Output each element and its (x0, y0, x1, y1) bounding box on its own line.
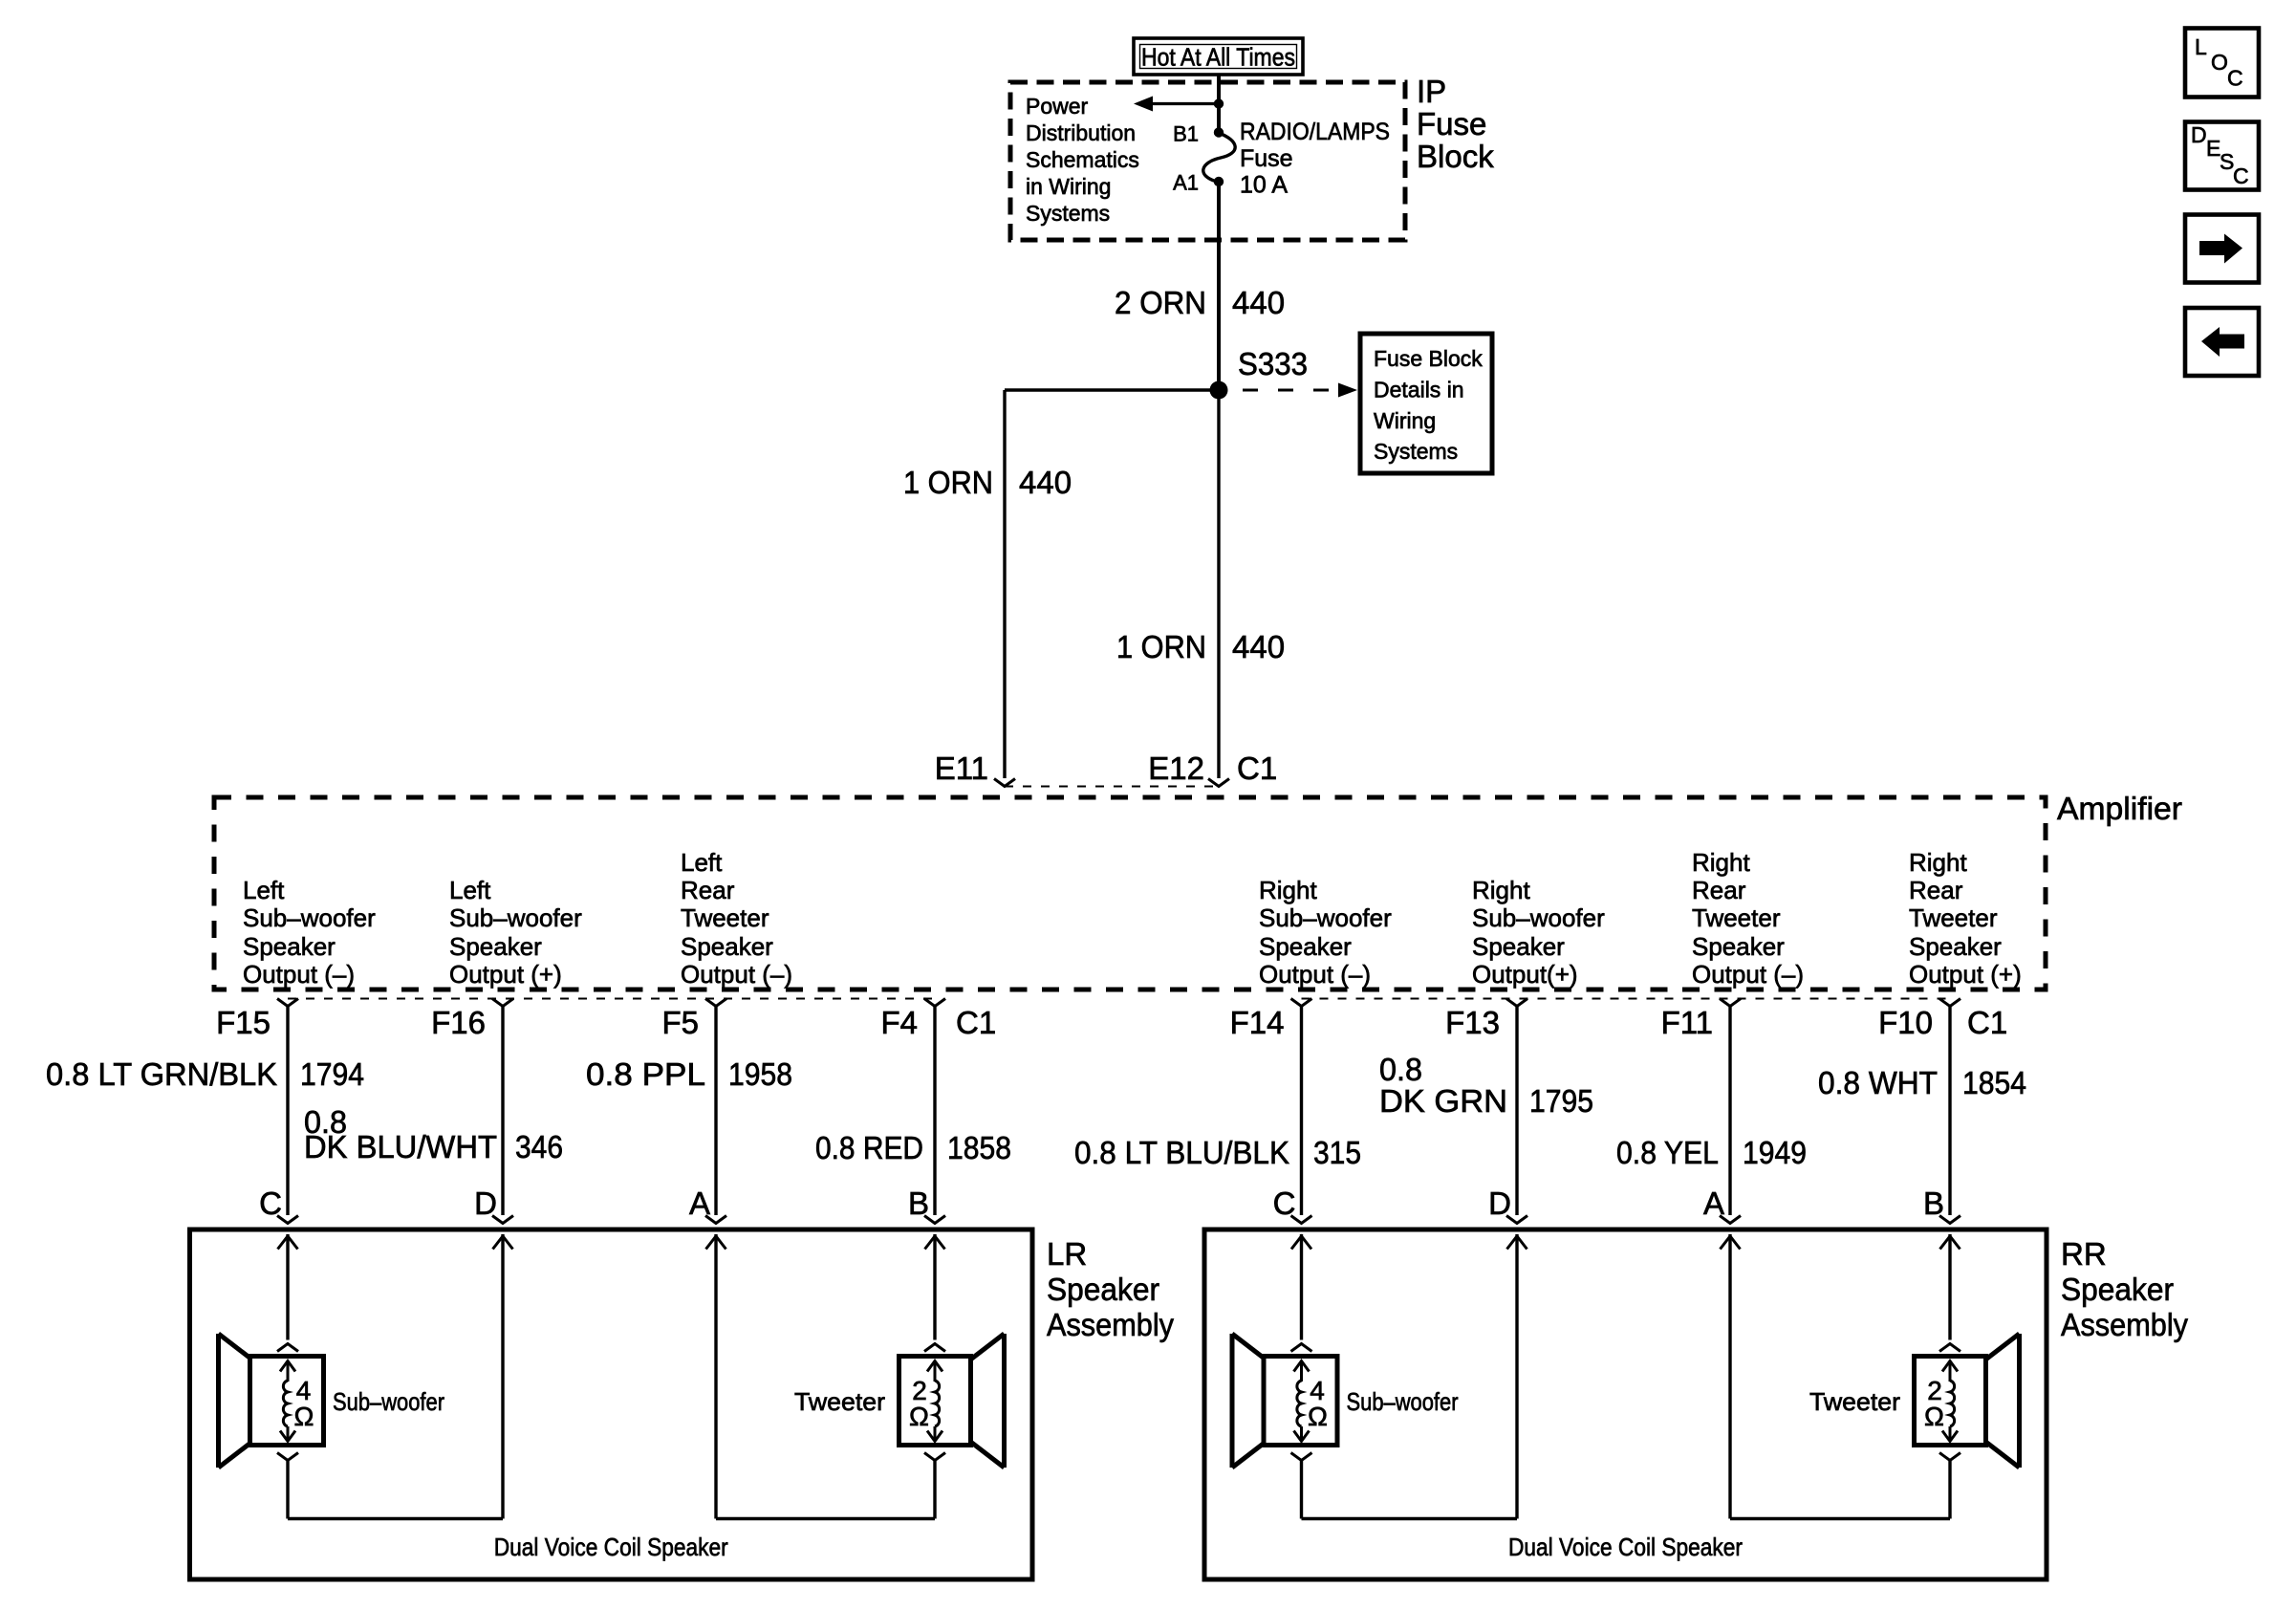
svg-text:Ω: Ω (909, 1402, 929, 1431)
RR tweeter voice coil 2 ohm (1915, 1357, 1986, 1446)
svg-text:Sub–woofer: Sub–woofer (243, 903, 376, 932)
arrowhead into RR box (1940, 1236, 1960, 1250)
terminal F15 (216, 999, 298, 1041)
svg-text:0.8 PPL: 0.8 PPL (586, 1056, 705, 1092)
terminal C of RR assembly (1273, 1186, 1312, 1224)
wire from LR tweeter to terminal A (716, 1234, 935, 1519)
svg-text:F13: F13 (1445, 1005, 1500, 1040)
power feed box Hot At All Times (1134, 38, 1303, 75)
svg-text:F15: F15 (216, 1005, 271, 1040)
svg-text:C1: C1 (956, 1005, 996, 1040)
svg-text:346: 346 (515, 1129, 563, 1164)
svg-text:Output (–): Output (–) (1259, 960, 1371, 989)
wire to LR tweeter coil (933, 1234, 936, 1340)
svg-text:F10: F10 (1878, 1005, 1933, 1040)
wire to LR sub-woofer coil (286, 1234, 289, 1340)
wire label 0.8 RED | 1858 (815, 1130, 1011, 1165)
terminal B of RR assembly (1923, 1186, 1960, 1224)
svg-text:Tweeter: Tweeter (681, 903, 769, 932)
svg-text:LR: LR (1047, 1236, 1087, 1272)
svg-text:Left: Left (681, 848, 723, 877)
arrowhead into RR box (1507, 1236, 1527, 1250)
RR dual voice coil note (1508, 1533, 1743, 1561)
wire 0.8 WHT 1854 (right rear tweeter +) (1948, 1006, 1951, 1216)
svg-text:Right: Right (1472, 876, 1530, 904)
terminal A of RR assembly (1703, 1186, 1741, 1224)
svg-text:Fuse: Fuse (1417, 106, 1486, 141)
svg-text:440: 440 (1232, 285, 1285, 320)
svg-text:Output (+): Output (+) (1909, 960, 2022, 989)
LR tweeter chevron below coil (924, 1453, 945, 1461)
svg-text:Ω: Ω (1924, 1402, 1944, 1431)
wire from Hot At All Times to fuse terminal B1 (1217, 75, 1221, 133)
svg-text:440: 440 (1232, 629, 1285, 664)
svg-text:1958: 1958 (728, 1056, 792, 1092)
svg-text:Speaker: Speaker (2061, 1272, 2174, 1307)
svg-text:Tweeter: Tweeter (1692, 903, 1781, 932)
terminal F5 (661, 999, 726, 1041)
wire 0.8 LT GRN/BLK 1794 (left sub-woofer -) (286, 1006, 289, 1216)
svg-text:IP: IP (1417, 74, 1446, 109)
nav icon back arrow (2185, 308, 2259, 376)
RR sub-woofer voice coil 4 ohm (1264, 1357, 1337, 1446)
svg-text:1 ORN: 1 ORN (1116, 629, 1206, 664)
RR sub-woofer label (1347, 1387, 1459, 1416)
svg-text:Fuse: Fuse (1240, 145, 1293, 172)
terminal D of LR assembly (474, 1186, 513, 1224)
terminal F13 (1445, 999, 1527, 1041)
wire label 0.8 WHT | 1854 (1818, 1065, 2026, 1100)
RR sub-woofer chevron above coil (1291, 1344, 1312, 1352)
wire 1 ORN 440 to E11 (903, 390, 1072, 778)
wire to RR tweeter coil (1948, 1234, 1951, 1340)
connector name C1 (top) (1237, 751, 1277, 786)
arrowhead into LR box (706, 1236, 726, 1250)
svg-text:0.8 RED: 0.8 RED (815, 1130, 923, 1165)
svg-text:Speaker: Speaker (243, 932, 336, 961)
wire 2 ORN 440 (1115, 182, 1285, 390)
svg-text:Ω: Ω (294, 1402, 314, 1431)
dashed reference arrow to fuse block details (1243, 383, 1357, 398)
amplifier dashed box (214, 797, 2046, 990)
note box Fuse Block Details in Wiring Systems (1360, 334, 1492, 473)
svg-text:L: L (2195, 34, 2207, 59)
component name RR Speaker Assembly (2061, 1236, 2188, 1342)
pin label Right Sub-woofer Speaker Output(+) (1472, 876, 1605, 989)
connector C1 boundary (amplifier top) (1005, 786, 1219, 788)
LR tweeter chevron above coil (924, 1344, 945, 1352)
terminal F14 (1230, 999, 1312, 1041)
connector C1 boundary (amplifier bottom right) (1302, 998, 1951, 1000)
terminal C of LR assembly (259, 1186, 298, 1224)
terminal B of LR assembly (908, 1186, 945, 1224)
svg-text:DK BLU/WHT: DK BLU/WHT (304, 1129, 497, 1164)
splice S333 (1210, 346, 1309, 400)
wire 0.8 YEL 1949 (right rear tweeter -) (1728, 1006, 1731, 1216)
nav icon LOC (2185, 29, 2259, 98)
svg-text:0.8 LT BLU/BLK: 0.8 LT BLU/BLK (1074, 1135, 1289, 1170)
svg-text:Output (+): Output (+) (449, 960, 562, 989)
svg-text:Distribution: Distribution (1026, 120, 1136, 145)
svg-text:C: C (2233, 163, 2249, 188)
LR sub-woofer speaker horn (219, 1334, 252, 1468)
svg-text:Output (–): Output (–) (681, 960, 792, 989)
connector C1 boundary (amplifier bottom left) (288, 998, 935, 1000)
arrowhead into LR box (493, 1236, 513, 1250)
svg-text:Right: Right (1259, 876, 1317, 904)
svg-text:1854: 1854 (1962, 1065, 2026, 1100)
pin label Left Sub-woofer Speaker Output (+) (449, 876, 582, 989)
svg-text:F16: F16 (431, 1005, 486, 1040)
terminal B1 (1173, 122, 1224, 146)
svg-text:Dual Voice Coil Speaker: Dual Voice Coil Speaker (494, 1533, 728, 1561)
svg-text:E12: E12 (1148, 751, 1204, 786)
svg-text:Speaker: Speaker (1047, 1272, 1159, 1307)
wire branch at S333 (1005, 388, 1219, 391)
svg-text:Speaker: Speaker (449, 932, 542, 961)
svg-text:S333: S333 (1238, 346, 1308, 381)
terminal F10 (1878, 999, 1960, 1041)
wire 0.8 DK GRN 1795 (right sub-woofer +) (1515, 1006, 1518, 1216)
LR tweeter label (794, 1387, 885, 1416)
svg-text:Systems: Systems (1026, 201, 1110, 226)
arrowhead into LR box (278, 1236, 298, 1250)
arrowhead into RR box (1721, 1236, 1741, 1250)
svg-text:Rear: Rear (1909, 876, 1963, 904)
nav icon forward arrow (2185, 215, 2259, 283)
svg-text:Assembly: Assembly (2061, 1307, 2188, 1342)
svg-text:RR: RR (2061, 1236, 2107, 1272)
pin label Right Rear Tweeter Speaker Output (-) (1692, 848, 1804, 989)
wire 0.8 RED 1858 (left rear tweeter +) (933, 1006, 936, 1216)
pin label Left Sub-woofer Speaker Output (-) (243, 876, 376, 989)
wire label 0.8 PPL | 1958 (586, 1056, 792, 1092)
svg-text:Tweeter: Tweeter (794, 1387, 885, 1416)
svg-text:Left: Left (243, 876, 285, 904)
wire 0.8 DK BLU/WHT 346 (left sub-woofer +) (501, 1006, 504, 1216)
LR tweeter speaker horn (971, 1334, 1005, 1468)
svg-text:Speaker: Speaker (1472, 932, 1565, 961)
svg-text:F14: F14 (1230, 1005, 1285, 1040)
svg-text:Sub–woofer: Sub–woofer (1472, 903, 1605, 932)
svg-text:Speaker: Speaker (1259, 932, 1352, 961)
LR tweeter voice coil 2 ohm (899, 1357, 971, 1446)
svg-text:1858: 1858 (947, 1130, 1011, 1165)
svg-text:Systems: Systems (1374, 439, 1458, 464)
svg-text:1949: 1949 (1743, 1135, 1807, 1170)
svg-text:A1: A1 (1173, 171, 1199, 195)
RR sub-woofer chevron below coil (1291, 1453, 1312, 1461)
svg-text:0.8 WHT: 0.8 WHT (1818, 1065, 1938, 1100)
svg-text:Details in: Details in (1374, 378, 1464, 402)
terminal A of LR assembly (689, 1186, 726, 1224)
svg-text:0.8: 0.8 (1379, 1052, 1422, 1087)
svg-text:Left: Left (449, 876, 491, 904)
terminal E12 (1148, 751, 1229, 787)
wire 1 ORN 440 to E12 (1116, 390, 1285, 778)
svg-text:Speaker: Speaker (1909, 932, 2002, 961)
RR tweeter speaker horn (1986, 1334, 2020, 1468)
svg-text:Output (–): Output (–) (1692, 960, 1804, 989)
svg-text:Tweeter: Tweeter (1909, 903, 1998, 932)
svg-text:Speaker: Speaker (1692, 932, 1785, 961)
svg-text:1 ORN: 1 ORN (903, 465, 993, 500)
svg-text:DK GRN: DK GRN (1379, 1083, 1507, 1119)
terminal D of RR assembly (1488, 1186, 1527, 1224)
RR speaker assembly box (1204, 1229, 2047, 1579)
svg-text:Amplifier: Amplifier (2057, 791, 2182, 826)
svg-text:Block: Block (1417, 139, 1494, 174)
svg-text:Sub–woofer: Sub–woofer (449, 903, 582, 932)
svg-text:D: D (2191, 122, 2207, 147)
terminal F11 (1661, 999, 1741, 1041)
LR speaker assembly box (190, 1229, 1033, 1579)
wire 0.8 LT BLU/BLK 315 (right sub-woofer -) (1300, 1006, 1303, 1216)
wire label 0.8 LT BLU/BLK | 315 (1074, 1135, 1361, 1170)
wire from RR sub-woofer to terminal D (1302, 1234, 1518, 1519)
wire label 0.8 LT GRN/BLK | 1794 (46, 1056, 364, 1092)
svg-text:0.8 LT GRN/BLK: 0.8 LT GRN/BLK (46, 1056, 277, 1092)
LR sub-woofer chevron above coil (277, 1344, 298, 1352)
terminal E11 (935, 751, 1015, 787)
svg-text:Sub–woofer: Sub–woofer (333, 1387, 444, 1416)
svg-text:10 A: 10 A (1240, 172, 1288, 199)
svg-text:Power: Power (1026, 94, 1089, 119)
wire label 0.8 DK GRN | 1795 (1379, 1052, 1593, 1119)
svg-text:F11: F11 (1661, 1005, 1713, 1040)
svg-text:Rear: Rear (1692, 876, 1746, 904)
component name LR Speaker Assembly (1047, 1236, 1174, 1342)
svg-text:Sub–woofer: Sub–woofer (1347, 1387, 1459, 1416)
terminal A1 (1173, 171, 1224, 195)
component name IP Fuse Block (1417, 74, 1494, 174)
RR tweeter label (1809, 1387, 1900, 1416)
arrowhead into RR box (1291, 1236, 1311, 1250)
pin label Right Sub-woofer Speaker Output (-) (1259, 876, 1392, 989)
svg-text:Hot At All Times: Hot At All Times (1141, 43, 1295, 72)
LR sub-woofer voice coil 4 ohm (250, 1357, 324, 1446)
arrow to power distribution schematics (1134, 97, 1219, 112)
svg-text:C1: C1 (1237, 751, 1277, 786)
svg-text:B1: B1 (1173, 122, 1199, 146)
svg-text:Output (–): Output (–) (243, 960, 355, 989)
svg-text:440: 440 (1019, 465, 1072, 500)
connector name C1 (bottom right) (1967, 1005, 2007, 1040)
wire to RR sub-woofer coil (1300, 1234, 1303, 1340)
wire label 0.8 DK BLU/WHT | 346 (304, 1104, 563, 1164)
svg-text:O: O (2211, 50, 2228, 75)
svg-text:RADIO/LAMPS: RADIO/LAMPS (1240, 119, 1390, 145)
svg-text:Ω: Ω (1308, 1402, 1328, 1431)
pin label Right Rear Tweeter Speaker Output (+) (1909, 848, 2022, 989)
svg-text:315: 315 (1313, 1135, 1361, 1170)
wire from RR tweeter to terminal A (1730, 1234, 1950, 1519)
svg-text:in Wiring: in Wiring (1026, 174, 1111, 199)
svg-text:Rear: Rear (681, 876, 735, 904)
component name Amplifier (2057, 791, 2182, 826)
wire 0.8 PPL 1958 (left rear tweeter -) (714, 1006, 717, 1216)
IP Fuse Block dashed box (1010, 82, 1405, 240)
svg-text:2 ORN: 2 ORN (1115, 285, 1206, 320)
svg-text:1794: 1794 (300, 1056, 364, 1092)
arrowhead into LR box (925, 1236, 945, 1250)
terminal F4 (880, 999, 945, 1041)
terminal F16 (431, 999, 513, 1041)
RR sub-woofer speaker horn (1232, 1334, 1266, 1468)
junction at arrow branch (1214, 98, 1224, 108)
svg-text:F4: F4 (880, 1005, 918, 1040)
fuse RADIO/LAMPS 10 A (1203, 119, 1390, 199)
svg-text:1795: 1795 (1529, 1083, 1593, 1119)
connector name C1 (bottom left) (956, 1005, 996, 1040)
svg-text:Sub–woofer: Sub–woofer (1259, 903, 1392, 932)
note Power Distribution Schematics in Wiring Systems (1026, 94, 1139, 226)
svg-text:C: C (2227, 66, 2243, 91)
wire label 0.8 YEL | 1949 (1616, 1135, 1807, 1170)
svg-text:0.8 YEL: 0.8 YEL (1616, 1135, 1719, 1170)
RR tweeter chevron above coil (1939, 1344, 1960, 1352)
svg-text:Assembly: Assembly (1047, 1307, 1174, 1342)
svg-text:Right: Right (1692, 848, 1750, 877)
svg-text:Wiring: Wiring (1374, 408, 1436, 433)
LR sub-woofer chevron below coil (277, 1453, 298, 1461)
svg-text:Dual Voice Coil Speaker: Dual Voice Coil Speaker (1508, 1533, 1743, 1561)
svg-text:Right: Right (1909, 848, 1967, 877)
svg-text:Output(+): Output(+) (1472, 960, 1578, 989)
svg-text:E11: E11 (935, 751, 988, 786)
svg-text:Fuse Block: Fuse Block (1374, 346, 1483, 371)
pin label Left Rear Tweeter Speaker Output (-) (681, 848, 792, 989)
nav icon DESC (2185, 122, 2259, 190)
LR dual voice coil note (494, 1533, 728, 1561)
LR sub-woofer label (333, 1387, 444, 1416)
wire from LR sub-woofer to terminal D (288, 1234, 503, 1519)
svg-text:F5: F5 (661, 1005, 699, 1040)
RR tweeter chevron below coil (1939, 1453, 1960, 1461)
svg-text:C1: C1 (1967, 1005, 2007, 1040)
svg-text:Tweeter: Tweeter (1809, 1387, 1900, 1416)
svg-text:Speaker: Speaker (681, 932, 773, 961)
svg-text:Schematics: Schematics (1026, 147, 1139, 172)
